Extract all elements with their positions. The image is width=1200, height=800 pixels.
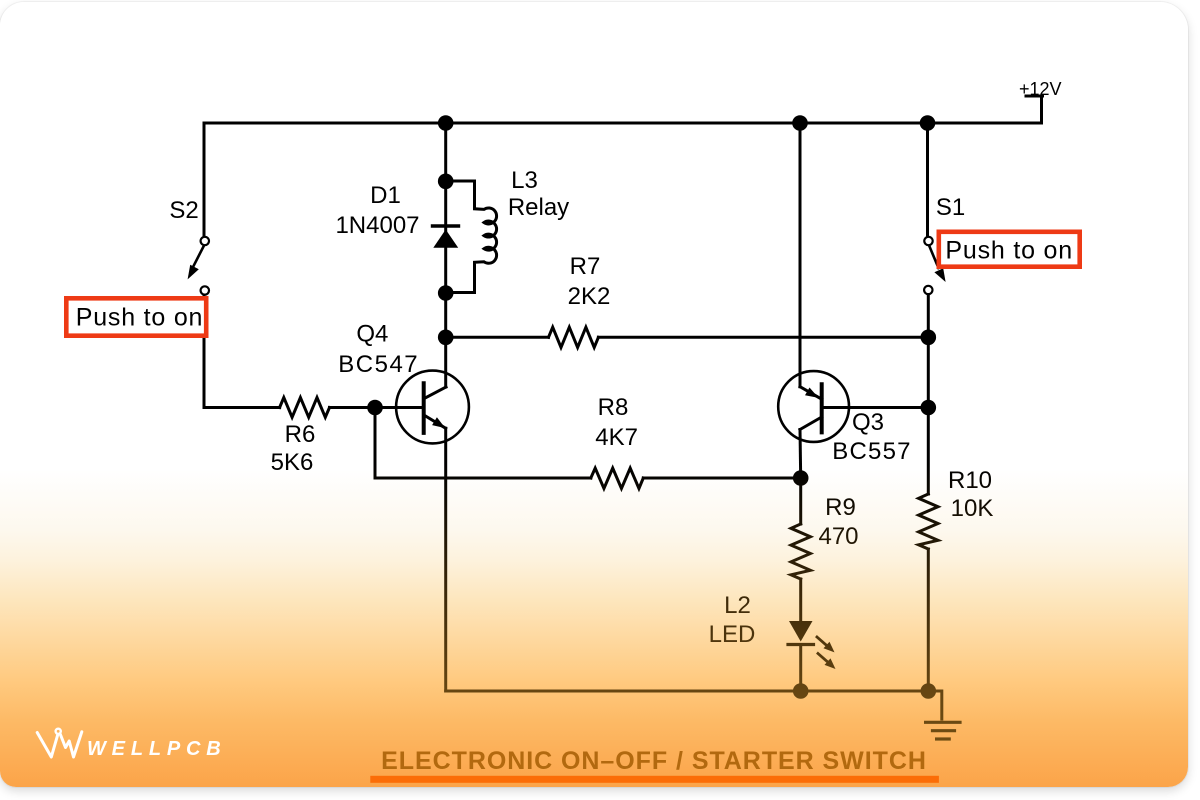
- switch S2: [188, 237, 209, 295]
- wire R7 right to S1 branch: [598, 336, 928, 339]
- node bottom rail R10: [921, 683, 937, 699]
- callout box Push to on (S1): [939, 232, 1080, 267]
- wire Q4 base down: [375, 408, 591, 479]
- power +12V symbol: [1026, 96, 1043, 123]
- svg-text:S1: S1: [936, 194, 965, 221]
- wire Q3 emitter from rail: [799, 123, 802, 387]
- switch S1: [924, 237, 946, 294]
- node top rail S1: [920, 115, 936, 131]
- svg-text:R7: R7: [570, 253, 601, 280]
- wire S2 to R6: [204, 406, 280, 409]
- wire to R10: [927, 408, 930, 495]
- svg-text:WELLPCB: WELLPCB: [87, 738, 226, 760]
- resistor R7: [549, 327, 599, 347]
- svg-text:470: 470: [818, 523, 858, 550]
- svg-text:Q4: Q4: [356, 321, 388, 348]
- wire LED to bottom rail: [799, 645, 802, 692]
- title underline: [370, 776, 939, 783]
- svg-text:4K7: 4K7: [595, 424, 638, 451]
- node bottom rail LED: [793, 683, 809, 699]
- wire R7 left: [446, 336, 549, 339]
- svg-text:R10: R10: [948, 467, 992, 494]
- node D1 top: [438, 174, 454, 190]
- svg-text:2K2: 2K2: [568, 283, 611, 310]
- wire R10 to bottom rail: [927, 549, 930, 691]
- inductor L3 relay coil: [446, 181, 497, 293]
- svg-text:LED: LED: [709, 621, 756, 648]
- wire S1 upper: [926, 123, 929, 237]
- wire R9 upper: [799, 478, 802, 524]
- svg-text:R8: R8: [598, 394, 629, 421]
- node Q3 base junction: [921, 400, 937, 416]
- svg-text:BC547: BC547: [338, 351, 419, 378]
- wire Q4 emitter down: [444, 428, 447, 691]
- node top rail Q3: [792, 115, 808, 131]
- wire S2 upper: [203, 123, 206, 237]
- node R7 left junction: [438, 330, 454, 346]
- svg-text:+12V: +12V: [1019, 79, 1062, 99]
- svg-text:S2: S2: [169, 197, 198, 224]
- wire Q3 base to S1 branch: [822, 406, 929, 409]
- svg-text:10K: 10K: [951, 495, 994, 522]
- wire R8 right to Q3 collector: [643, 477, 800, 480]
- svg-text:BC557: BC557: [832, 438, 911, 465]
- wire Q3 collector down: [799, 430, 803, 479]
- wire S1 junction to Q3 base junction: [927, 337, 930, 407]
- transistor Q3: [778, 371, 849, 442]
- node top rail D1: [438, 115, 454, 131]
- diode D1: [433, 226, 459, 248]
- svg-text:ELECTRONIC ON–OFF / STARTER SW: ELECTRONIC ON–OFF / STARTER SWITCH: [381, 747, 927, 775]
- svg-text:Relay: Relay: [508, 194, 569, 221]
- logo WELLPCB mark: [37, 729, 82, 757]
- wire R9 to LED: [799, 579, 802, 621]
- wire S1 lower: [927, 295, 930, 338]
- wire Q4 collector up: [444, 123, 447, 387]
- svg-text:Push to on: Push to on: [945, 237, 1073, 265]
- wire R6 to Q4 base: [330, 406, 423, 409]
- resistor R8: [591, 468, 644, 488]
- svg-text:L2: L2: [724, 592, 751, 619]
- node S1 R7 junction: [921, 330, 937, 346]
- ground: [926, 722, 960, 739]
- svg-text:5K6: 5K6: [271, 449, 314, 476]
- resistor R9: [791, 524, 810, 579]
- svg-text:L3: L3: [511, 167, 538, 194]
- svg-text:D1: D1: [370, 182, 401, 209]
- wire S2 lower: [203, 295, 206, 408]
- svg-text:R9: R9: [825, 494, 856, 521]
- node D1 bottom: [438, 285, 454, 301]
- svg-text:1N4007: 1N4007: [335, 212, 419, 239]
- svg-text:Push to on: Push to on: [76, 304, 204, 332]
- svg-text:Q3: Q3: [852, 409, 884, 436]
- node Q3 collector junction: [793, 470, 809, 486]
- transistor Q4: [396, 371, 469, 444]
- wire top +12V rail: [204, 122, 1042, 125]
- LED L2: [788, 621, 836, 669]
- svg-text:R6: R6: [285, 421, 316, 448]
- resistor R10: [919, 494, 938, 549]
- node Q4 base junction: [367, 400, 383, 416]
- resistor R6: [280, 398, 330, 418]
- callout box Push to on (S2): [66, 298, 206, 335]
- wire bottom rail: [446, 691, 942, 719]
